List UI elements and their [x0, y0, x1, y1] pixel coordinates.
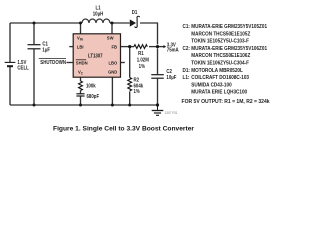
svg-text:MURATA ERIE LQH3C100: MURATA ERIE LQH3C100	[191, 89, 247, 95]
svg-text:1µF: 1µF	[42, 47, 50, 53]
wire battery bottom lead	[9, 67, 11, 105]
svg-text:LBO: LBO	[109, 60, 118, 65]
svg-text:MURATA-ERIE GRM235Y5V105Z01: MURATA-ERIE GRM235Y5V105Z01	[191, 24, 267, 30]
svg-text:D1:: D1:	[183, 68, 191, 74]
svg-text:CELL: CELL	[17, 65, 28, 71]
svg-text:680pF: 680pF	[87, 94, 100, 100]
resistor R2	[128, 77, 144, 95]
wire SHDN pin lead	[67, 62, 74, 64]
node FB divider	[128, 45, 131, 48]
wire FB pin to node	[121, 46, 130, 48]
component value notes	[182, 24, 270, 105]
wire output stub	[158, 46, 164, 48]
wire VIN pin stub	[80, 23, 82, 34]
resistor R1	[134, 45, 149, 70]
capacitor C2	[151, 69, 176, 81]
svg-text:SUMIDA CD43-100: SUMIDA CD43-100	[191, 82, 232, 88]
wire FB node to R2	[129, 47, 131, 78]
node VIN rail	[79, 22, 82, 25]
junction node dots	[33, 22, 160, 107]
wire output node down to C2	[157, 49, 159, 75]
capacitor 680pF	[76, 94, 99, 100]
wire C1 bottom lead	[33, 49, 35, 105]
svg-text:C2:: C2:	[183, 46, 191, 52]
svg-text:100k: 100k	[86, 83, 96, 89]
svg-text:R1: R1	[138, 51, 144, 57]
svg-text:D1: D1	[132, 10, 138, 16]
resistor 100k	[79, 81, 96, 91]
wire 680pF to rail	[80, 96, 82, 105]
wire battery top lead	[9, 23, 11, 62]
svg-text:FOR 5V OUTPUT: R1 = 1M, R2 = 3: FOR 5V OUTPUT: R1 = 1M, R2 = 324k	[182, 99, 270, 105]
svg-text:MURATA-ERIE GRM235Y5V106Z01: MURATA-ERIE GRM235Y5V106Z01	[191, 46, 267, 52]
node C1 top	[33, 22, 36, 25]
wire LBO pin stub	[121, 62, 125, 64]
wire R2 to rail	[129, 92, 131, 106]
inductor L1	[82, 19, 110, 23]
svg-text:R2: R2	[134, 77, 140, 83]
svg-text:L1: L1	[95, 5, 100, 11]
diode D1 (Schottky)	[130, 10, 140, 28]
node R2 rail	[128, 104, 131, 107]
node GND rail	[111, 104, 114, 107]
SHUTDOWN signal label	[39, 59, 67, 67]
svg-text:604k: 604k	[134, 83, 144, 89]
svg-text:1307 F01: 1307 F01	[165, 111, 178, 115]
wire C2 to bottom rail	[157, 79, 159, 105]
svg-text:L1:: L1:	[183, 75, 190, 81]
svg-text:Figure 1. Single Cell to 3.3V: Figure 1. Single Cell to 3.3V Boost Conv…	[53, 125, 194, 132]
op-amp U1 : LT1307 IC body	[73, 34, 120, 77]
svg-text:GND: GND	[108, 69, 118, 74]
svg-text:MARCON THCS50E1E106Z: MARCON THCS50E1E106Z	[191, 53, 250, 59]
battery 1.5V CELL	[5, 59, 29, 71]
svg-text:10µH: 10µH	[93, 11, 104, 17]
wire top rail left	[10, 22, 82, 24]
svg-text:1.5V: 1.5V	[17, 59, 27, 65]
wire top rail between L1 and D1	[110, 22, 130, 24]
svg-text:TOKIN 1E106ZY5U-C304-F: TOKIN 1E106ZY5U-C304-F	[191, 60, 249, 66]
capacitor C1	[28, 41, 51, 53]
wire C1 top lead	[33, 23, 35, 44]
svg-text:TOKIN 1E105ZY5U-C103-F: TOKIN 1E105ZY5U-C103-F	[191, 38, 249, 44]
svg-text:SW: SW	[107, 35, 114, 40]
node SW rail	[111, 22, 114, 25]
svg-text:1%: 1%	[139, 64, 146, 70]
wire VC pin to 100k	[80, 77, 82, 81]
svg-text:LBI: LBI	[77, 44, 84, 49]
node 680pF rail	[79, 104, 82, 107]
svg-text:SHDN: SHDN	[76, 60, 88, 65]
node C1 bottom rail	[33, 104, 36, 107]
wire SW pin stub	[111, 23, 113, 34]
svg-text:75mA: 75mA	[167, 47, 179, 53]
svg-text:1%: 1%	[134, 89, 141, 95]
wire FB node to R1	[130, 46, 134, 48]
node ground rail end	[156, 103, 159, 106]
svg-text:COILCRAFT DO1608C-103: COILCRAFT DO1608C-103	[191, 75, 249, 81]
wire bottom rail	[10, 104, 158, 106]
ground	[152, 105, 164, 115]
svg-text:LT1307: LT1307	[88, 53, 103, 59]
svg-text:MARCON THCS50E1E105Z: MARCON THCS50E1E105Z	[191, 31, 250, 37]
node VOUT output arrow	[164, 42, 180, 53]
node VOUT	[156, 45, 159, 48]
wire D1 cathode to output corner	[140, 23, 158, 45]
wire 100k to 680pF	[80, 91, 82, 94]
svg-text:FB: FB	[111, 44, 117, 49]
svg-text:C2: C2	[166, 69, 172, 75]
svg-text:C1:: C1:	[183, 24, 191, 30]
svg-text:10µF: 10µF	[166, 75, 176, 81]
svg-text:SHUTDOWN: SHUTDOWN	[40, 60, 66, 66]
svg-text:1.02M: 1.02M	[137, 57, 149, 63]
wire GND pin to rail	[111, 77, 113, 105]
wire R1 to output node	[149, 46, 158, 48]
svg-text:MOTOROLA MBR0520L: MOTOROLA MBR0520L	[191, 68, 243, 74]
svg-text:C1: C1	[42, 41, 48, 47]
wire LBI pin stub	[69, 46, 73, 48]
